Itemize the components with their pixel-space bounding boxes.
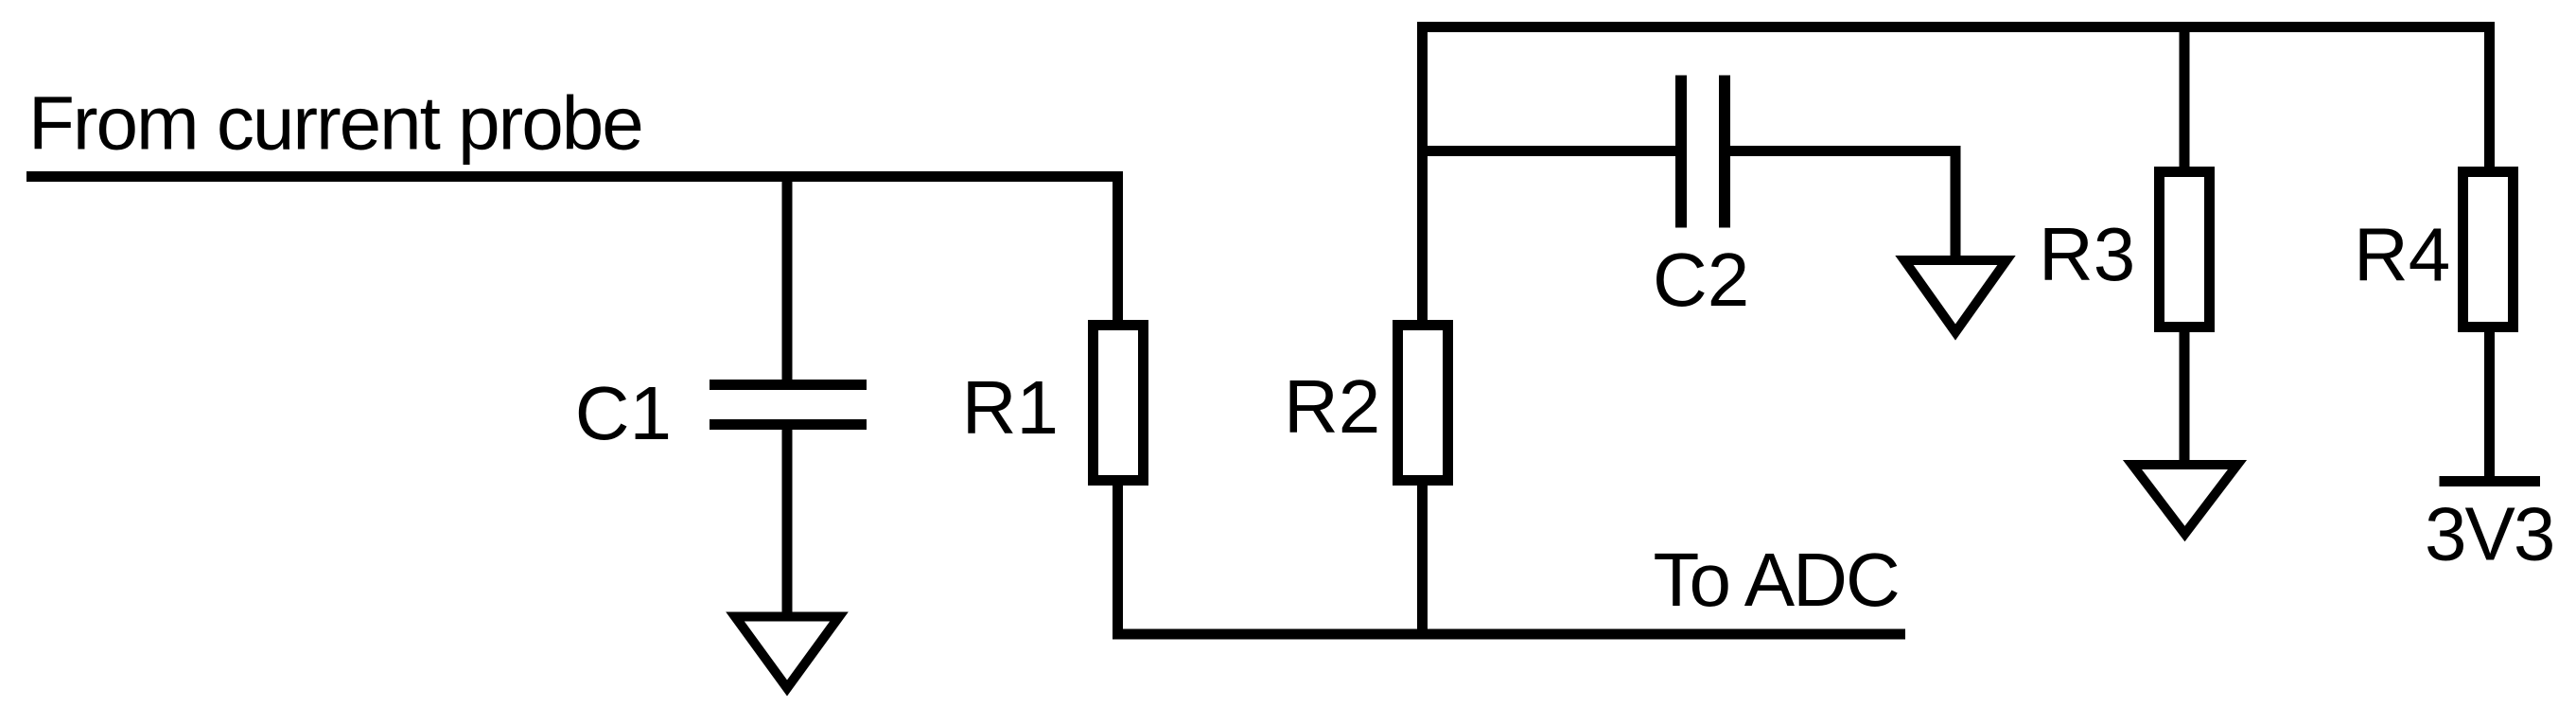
power rail 3V3 bar [2440, 476, 2541, 486]
wire: C1 bottom stem [782, 425, 793, 616]
ground symbol below R3 [2132, 465, 2237, 534]
wire: R2 bottom stem [1417, 483, 1428, 640]
wire: R1 top stem [1113, 177, 1123, 323]
svg-text:To ADC: To ADC [1654, 538, 1899, 622]
wire: R4 bottom stem [2484, 327, 2495, 482]
capacitor C2 left plate [1675, 76, 1687, 228]
svg-text:R2: R2 [1284, 364, 1380, 449]
wire: input net from current probe [26, 171, 1123, 182]
resistor R2 body [1398, 326, 1448, 481]
svg-text:R4: R4 [2354, 213, 2450, 297]
wire: bottom net to ADC [1113, 629, 1905, 640]
wire: R4 top stem [2484, 27, 2495, 170]
wire: R3 bottom stem [2180, 327, 2190, 464]
wire: R2 node to C2 left plate [1423, 146, 1676, 156]
capacitor C1 top plate [710, 380, 867, 390]
wire: C2 right plate to ground corner [1730, 151, 1955, 256]
wire: top net [1417, 22, 2495, 32]
capacitor C1 bottom plate [710, 419, 867, 430]
resistor R4 body [2463, 172, 2514, 327]
wire: R3 top stem [2180, 27, 2190, 170]
ground symbol below C1 [735, 617, 839, 689]
wire: R2 top stem [1417, 27, 1428, 326]
capacitor C2 right plate [1719, 76, 1730, 228]
svg-text:R1: R1 [962, 365, 1059, 450]
svg-text:C2: C2 [1653, 238, 1749, 322]
resistor R1 body [1094, 326, 1144, 481]
resistor R3 body [2160, 172, 2210, 327]
svg-text:R3: R3 [2039, 212, 2135, 296]
svg-text:C1: C1 [575, 371, 672, 455]
wire: C1 top stem [782, 177, 793, 385]
svg-text:3V3: 3V3 [2425, 492, 2553, 576]
svg-text:From current probe: From current probe [28, 81, 642, 166]
wire: R1 bottom stem [1113, 481, 1123, 640]
ground symbol below C2 [1904, 260, 2006, 332]
